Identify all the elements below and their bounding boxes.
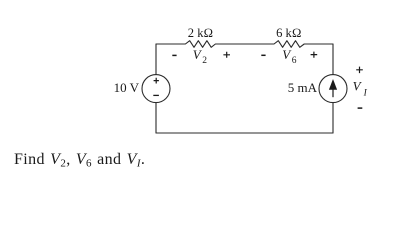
svg-text:5 mA: 5 mA — [288, 80, 318, 95]
svg-text:V: V — [353, 78, 363, 93]
svg-text:V: V — [193, 47, 203, 62]
svg-text:V: V — [282, 47, 292, 62]
svg-text:6 kΩ: 6 kΩ — [276, 26, 301, 40]
svg-text:2 kΩ: 2 kΩ — [188, 26, 213, 40]
svg-text:Find V2, V6 and VI.: Find V2, V6 and VI. — [14, 151, 145, 170]
svg-text:10 V: 10 V — [114, 80, 140, 95]
svg-text:2: 2 — [202, 56, 207, 66]
svg-text:6: 6 — [292, 56, 297, 66]
svg-text:I: I — [363, 88, 368, 98]
